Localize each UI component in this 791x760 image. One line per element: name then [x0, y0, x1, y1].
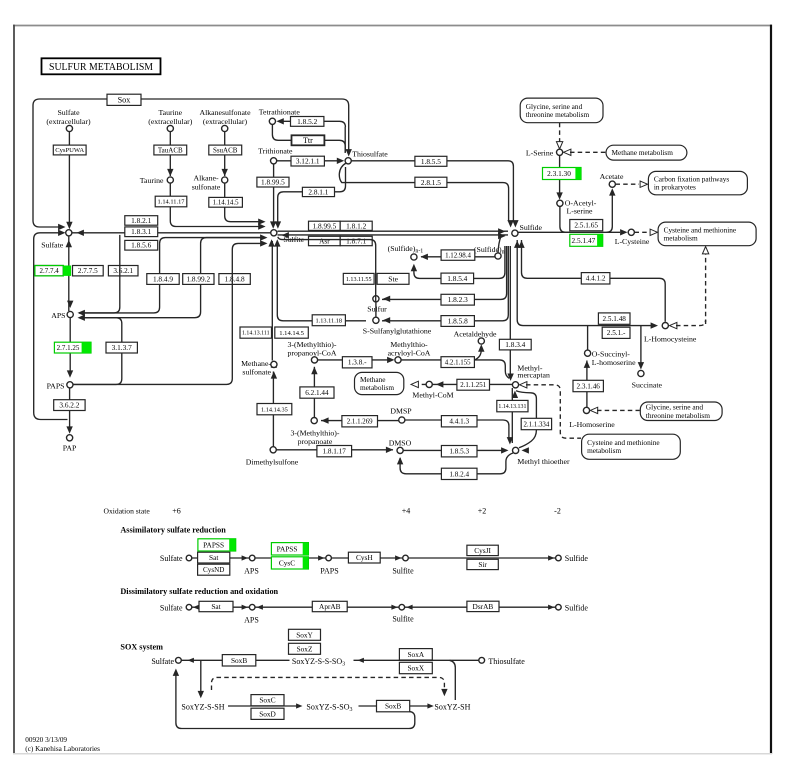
arrowhead into SoxYZ-SH	[427, 703, 433, 708]
arrowhead into sulfite (dissim)	[391, 605, 397, 610]
svg-text:3.6.2.2: 3.6.2.2	[59, 401, 79, 410]
node PAP	[67, 435, 73, 441]
node DMSP	[399, 417, 405, 423]
svg-text:1.14.14.5: 1.14.14.5	[279, 330, 304, 337]
svg-text:SoxYZ-SH: SoxYZ-SH	[434, 703, 470, 712]
enzyme box 2.8.1.1	[302, 187, 334, 196]
wire sulfide to L-cysteine (via 2.5.1.65 / 2.5.1.47)	[518, 231, 620, 233]
svg-text:Sulfate: Sulfate	[41, 241, 64, 250]
svg-text:1.8.1.2: 1.8.1.2	[346, 221, 366, 230]
svg-text:4.4.1.2: 4.4.1.2	[586, 275, 606, 283]
arrowhead into acetate	[609, 188, 615, 195]
svg-text:Dimethylsulfone: Dimethylsulfone	[246, 457, 299, 466]
svg-text:SoxY: SoxY	[296, 630, 313, 639]
svg-text:Sulfate: Sulfate	[151, 657, 174, 666]
enzyme box 2.8.1.5	[415, 177, 447, 187]
node Dimethylsulfone	[270, 447, 276, 453]
svg-text:Sulfur: Sulfur	[367, 304, 387, 313]
svg-text:(extracellular): (extracellular)	[203, 117, 248, 126]
svg-text:L-homoserine: L-homoserine	[592, 358, 636, 367]
wire 1.3.8.- propanoyl-CoA -> acryloyl-CoA	[318, 359, 392, 361]
wire succinate branch	[640, 326, 642, 366]
node Trithionate	[271, 158, 277, 164]
wire sulfate-ext to sulfate junction	[68, 132, 70, 223]
node sulfite dissimilatory	[399, 604, 405, 610]
wire 3.1.3.7 loop PAPS->APS	[73, 318, 122, 385]
arrowhead into sulfur from right (1.8.2.3)	[383, 296, 390, 302]
svg-text:threonine metabolism: threonine metabolism	[646, 411, 710, 420]
enzyme box Sox	[107, 94, 141, 105]
svg-text:1.14.13.111: 1.14.13.111	[242, 331, 270, 337]
arrowhead into APS lower from right	[78, 315, 85, 321]
svg-text:Dissimilatory sulfate reductio: Dissimilatory sulfate reduction and oxid…	[120, 587, 278, 596]
node Methyl-CoM	[426, 381, 432, 387]
map box Cysteine and methionine metabolism (lower)	[582, 434, 681, 459]
wire 1.8.2.4 methyl thioether->DMSO loop	[400, 453, 513, 474]
wire 3.12.1.1 line trithionate->thiosulfate	[277, 160, 342, 162]
node sulfite assimilatory	[403, 555, 409, 561]
wire L-serine to O-acetyl-L-serine (via 2.3.1.30)	[559, 155, 561, 196]
wire 1.8.5.2 right stub down to thiosulfate	[344, 127, 346, 153]
node Alkanesulfonate (extracellular)	[222, 125, 228, 131]
enzyme box 2.7.7.5	[73, 266, 104, 276]
arrowhead into APS (dissim)	[242, 605, 248, 610]
svg-text:1.8.5.2: 1.8.5.2	[297, 117, 317, 126]
arrowhead into sulfate from right	[77, 230, 84, 236]
wire trithionate down to sulfite (via 1.8.99.5)	[273, 164, 275, 223]
wire PAPS->1.8.4.8->sulfite	[73, 243, 261, 384]
open arrowhead up into cysteine metabolism box	[702, 247, 708, 254]
svg-text:(extracellular): (extracellular)	[148, 117, 193, 126]
enzyme box 1.13.11.55	[343, 273, 374, 284]
svg-text:L-Serine: L-Serine	[526, 149, 554, 158]
wire 1.14.13.131 methylmercaptan->methyl thioether	[511, 388, 513, 443]
map box Methane metabolism (right)	[606, 145, 687, 160]
enzyme box 1.8.2.1	[125, 216, 158, 226]
svg-text:SsuACB: SsuACB	[213, 146, 238, 154]
node APS dissimilatory	[249, 604, 255, 610]
svg-text:APS: APS	[244, 615, 259, 624]
wire thiosulfate stub down to SoxYZ-SH	[450, 660, 456, 700]
svg-text:SoxA: SoxA	[407, 650, 424, 659]
svg-text:CysJI: CysJI	[474, 546, 491, 555]
svg-text:1.8.99.5: 1.8.99.5	[261, 178, 285, 187]
open arrowhead into methane metabolism box 2	[411, 381, 418, 387]
svg-text:2.5.1.48: 2.5.1.48	[603, 315, 627, 323]
arrowhead into sulfite upper-left 1	[258, 223, 265, 229]
arrowheads into sulfite from below	[268, 239, 274, 246]
wire sulfate<->sulfite main line	[72, 232, 270, 234]
enzyme box 1.8.5.3	[441, 446, 477, 457]
wire taurine to sulfite (via 1.14.11.17)	[170, 183, 259, 227]
node thiosulfate SOX	[479, 657, 485, 663]
enzyme box SoxA	[399, 649, 432, 660]
enzyme box Ttr (bold)	[292, 135, 325, 145]
arrowhead into APS from top	[67, 301, 73, 308]
wire 2.1.1.251 methylmercaptan->methyl-CoM	[432, 383, 512, 385]
arrowhead up into sulfate (SOX loop)	[173, 669, 179, 676]
svg-text:1.8.3.1: 1.8.3.1	[131, 227, 151, 236]
enzyme box 1.14.14.35	[257, 404, 292, 415]
node Sulfite junction	[271, 230, 277, 236]
node sulfide dissimilatory	[556, 604, 562, 610]
svg-text:1.14.14.35: 1.14.14.35	[261, 406, 288, 413]
arrowhead into PAP	[66, 426, 72, 433]
svg-text:+4: +4	[402, 507, 411, 516]
svg-text:3.1.3.7: 3.1.3.7	[112, 343, 132, 352]
svg-text:Acetaldehyde: Acetaldehyde	[454, 329, 497, 338]
enzyme box SoxY	[289, 629, 321, 640]
map box Glycine serine threonine metabolism (lower)	[640, 402, 722, 421]
enzyme box Sat 2	[199, 601, 233, 611]
arrowhead into PAPS (assim)	[318, 555, 324, 560]
svg-text:Thiosulfate: Thiosulfate	[488, 657, 525, 666]
arrowhead into sulfite (assim)	[395, 555, 401, 560]
enzyme box SoxB 2	[377, 700, 410, 711]
enzyme box SoxZ	[289, 643, 321, 654]
enzyme box 2.5.1.65	[570, 220, 603, 231]
wire 2.5.1.48 sulfide->L-homocysteine	[517, 240, 651, 326]
svg-text:1.8.2.3: 1.8.2.3	[448, 295, 468, 304]
wire dashed methylmercaptan to cysteine metabolism box (lower)	[526, 385, 581, 438]
wire sulfite<->sulfide parallel lines	[278, 230, 509, 232]
svg-text:Ste: Ste	[388, 274, 398, 283]
node Methylthio-acryloyl-CoA	[395, 357, 401, 363]
svg-text:+2: +2	[478, 507, 487, 516]
arrowhead into thiosulfate from Sox line	[346, 149, 352, 156]
arrowhead into L-cysteine	[620, 229, 627, 235]
enzyme box TauACB	[154, 145, 187, 155]
wire sulfur-s-sulfanyl connection	[375, 302, 377, 318]
arrowhead into sulfate (dissim)	[193, 605, 199, 610]
wire 1.8.5.5 line thiosulfate->sulfide	[351, 161, 513, 222]
arrowhead into succinate	[638, 362, 644, 369]
arrowhead into sulfide from left 2	[498, 233, 505, 239]
svg-text:1.8.99.2: 1.8.99.2	[186, 275, 210, 284]
wire 1.8.5.2 line thiosulfate->tetrathionate	[283, 121, 345, 127]
svg-text:in prokaryotes: in prokaryotes	[654, 183, 696, 192]
enzyme box 1.8.2.4	[441, 468, 477, 479]
svg-text:mercaptan: mercaptan	[517, 371, 550, 380]
svg-text:Methyl thioether: Methyl thioether	[517, 457, 570, 466]
node DMSO	[397, 447, 403, 453]
svg-text:1.8.99.5: 1.8.99.5	[313, 221, 337, 230]
node Taurine (extracellular)	[167, 125, 173, 131]
page border top (gray)	[13, 25, 772, 27]
wire assimilatory row line	[192, 557, 556, 559]
enzyme box 1.8.5.5	[415, 156, 447, 166]
svg-text:1.14.14.5: 1.14.14.5	[213, 200, 239, 207]
wire sulfate->3.6.2.1->APS loop	[79, 235, 120, 313]
enzyme box 1.8.5.4	[441, 273, 474, 284]
svg-text:sulfonate: sulfonate	[192, 182, 221, 191]
wire sulfite down then right to S-sulfanylglutathione (1.13.11.18)	[277, 241, 366, 321]
svg-text:Sulfate: Sulfate	[57, 108, 80, 117]
wire 1.8.5.3 DMSO->methyl thioether	[403, 449, 505, 451]
wire 2.8.1.5 line thiosulfate->sulfide	[339, 163, 508, 222]
svg-text:DMSP: DMSP	[390, 406, 412, 415]
svg-text:CysPUWA: CysPUWA	[55, 147, 84, 154]
wire SOX main line	[181, 659, 478, 661]
svg-text:2.1.1.334: 2.1.1.334	[523, 421, 549, 428]
svg-text:1.8.5.8: 1.8.5.8	[448, 317, 468, 326]
enzyme box 3.6.2.1	[108, 266, 138, 276]
arrowhead into SoxYZ-S-S-SO3	[358, 658, 364, 663]
wire PAPS to PAP (via 3.6.2.2)	[69, 388, 71, 427]
svg-text:3.12.1.1: 3.12.1.1	[296, 157, 320, 166]
wire 2.8.1.1 line thiosulfate->sulfite	[278, 167, 346, 223]
wire dashed L-homocysteine right then up	[676, 320, 706, 326]
arrowheads into sulfate junction from left (compartment paths)	[58, 224, 65, 230]
node (Sulfide)n	[495, 253, 501, 259]
node Taurine	[167, 177, 173, 183]
svg-text:Tetrathionate: Tetrathionate	[259, 108, 301, 117]
svg-text:acryloyl-CoA: acryloyl-CoA	[388, 348, 431, 357]
arrowhead into APS from right (dissim)	[257, 605, 263, 610]
svg-text:1.8.5.5: 1.8.5.5	[421, 157, 441, 166]
wire dashed L-homocysteine up to cysteine metabolism box	[705, 254, 707, 325]
enzyme box 1.8.5.8	[441, 316, 474, 327]
svg-text:CysH: CysH	[356, 553, 373, 562]
enzyme box 6.2.1.44	[300, 387, 334, 398]
arrowhead into methylmercaptan	[507, 374, 513, 381]
node Thiosulfate	[345, 158, 351, 164]
svg-text:1.13.11.18: 1.13.11.18	[316, 317, 343, 324]
svg-text:Sulfite: Sulfite	[392, 615, 414, 624]
enzyme box 3.1.3.7	[106, 342, 137, 353]
svg-text:Thiosulfate: Thiosulfate	[352, 149, 388, 158]
arrowhead into sulfite from right (dissim)	[406, 605, 412, 610]
enzyme box SoxC	[251, 695, 284, 706]
arrowhead into sulfate from below (APS return)	[66, 240, 72, 247]
node sulfide assimilatory	[556, 555, 562, 561]
label SoxYZ-S-SO3	[305, 701, 358, 713]
svg-text:L-Cysteine: L-Cysteine	[615, 237, 650, 246]
wire acetate branch from cysteine line	[607, 195, 613, 233]
node Tetrathionate	[269, 118, 275, 124]
enzyme box 4.2.1.155	[441, 357, 474, 368]
node L-Homocysteine	[662, 323, 668, 329]
svg-text:1.8.4.9: 1.8.4.9	[153, 275, 173, 284]
svg-text:6.2.1.44: 6.2.1.44	[305, 389, 329, 397]
enzyme box 1.8.3.4	[499, 339, 531, 350]
svg-text:1.14.13.131: 1.14.13.131	[498, 404, 526, 410]
wire 1.12.98.4 (sulfide)n -> (sulfide)n-1	[421, 256, 495, 258]
svg-text:Sat: Sat	[209, 553, 218, 562]
arrowhead into sulfide from left 1	[498, 228, 505, 234]
svg-text:metabolism: metabolism	[664, 233, 698, 242]
arrowhead into tetrathionate	[276, 118, 283, 124]
svg-text:SOX system: SOX system	[120, 643, 163, 652]
arrowhead into sulfide (assim)	[548, 555, 554, 560]
wire L-homoserine up to O-succinyl (2.3.1.46)	[586, 361, 588, 408]
enzyme box 1.14.13.131	[497, 400, 528, 411]
node O-Succinyl-L-homoserine	[585, 350, 591, 356]
enzyme box CysPUWA	[53, 145, 86, 155]
enzyme box 1.3.8.-	[342, 357, 372, 368]
wire sulfite down to methanesulfonate	[271, 241, 273, 361]
svg-text:Oxidation state: Oxidation state	[104, 507, 151, 516]
open arrowhead L-homocysteine dashed	[670, 322, 677, 328]
green stripe of 2.7.7.4	[63, 266, 71, 276]
enzyme box 3.12.1.1	[291, 156, 324, 166]
svg-text:3.6.2.1: 3.6.2.1	[113, 267, 133, 275]
wire SoxCD line	[228, 705, 298, 707]
enzyme box 1.14.14.5 (second)	[275, 327, 309, 338]
node PAPS assimilatory	[326, 555, 332, 561]
enzyme box AprAB	[312, 601, 347, 611]
enzyme box 1.8.5.2	[291, 117, 324, 127]
arrowhead into propanoate	[321, 417, 328, 423]
svg-text:1.8.3.4: 1.8.3.4	[505, 340, 525, 349]
enzyme box 1.8.1.17	[317, 446, 352, 457]
wire alkanesulfonate-ext down	[224, 132, 226, 177]
wire dashed glycine box to L-serine	[559, 123, 561, 143]
svg-text:+6: +6	[172, 507, 181, 516]
arrowhead into APS from right 2	[78, 310, 85, 316]
arrowhead into sulfite lower-left 1	[260, 240, 267, 246]
enzyme box 2.7.7.4 (green border)	[35, 266, 63, 276]
svg-text:00920 3/13/09: 00920 3/13/09	[25, 736, 67, 744]
svg-text:1.8.5.6: 1.8.5.6	[131, 241, 151, 250]
arrowhead into alkanesulfonate	[222, 169, 228, 176]
svg-text:propanoyl-CoA: propanoyl-CoA	[288, 348, 337, 357]
enzyme box 1.8.7.1	[340, 236, 372, 245]
svg-text:-2: -2	[554, 507, 561, 516]
arrowhead into thiosulfate from left	[337, 158, 344, 164]
svg-text:SULFUR METABOLISM: SULFUR METABOLISM	[49, 62, 153, 73]
svg-text:1.3.8.-: 1.3.8.-	[348, 359, 367, 367]
enzyme box PAPSS (green) 1	[198, 539, 236, 551]
svg-text:Acetate: Acetate	[600, 172, 624, 181]
map box Glycine serine and threonine metabolism (top)	[520, 98, 603, 123]
svg-text:1.8.7.1: 1.8.7.1	[346, 237, 366, 246]
enzyme box 1.14.13.111	[240, 327, 272, 338]
svg-text:Assimilatory sulfate reduction: Assimilatory sulfate reduction	[120, 526, 226, 535]
enzyme box 1.8.4.8	[219, 274, 250, 285]
enzyme box 1.8.99.2	[183, 274, 214, 285]
enzyme box 1.13.11.18	[312, 315, 345, 326]
node Succinate	[638, 370, 644, 376]
enzyme box 2.5.1.48	[598, 313, 630, 324]
wire O-succinyl-homoserine up to 2.5.1.48 line	[587, 326, 589, 350]
enzyme box 2.3.1.46	[573, 380, 603, 391]
arrowhead into methyl thioether from right	[522, 447, 529, 453]
enzyme box Sir	[467, 559, 498, 569]
svg-text:Sulfide: Sulfide	[565, 603, 589, 612]
node S-Sulfanylglutathione	[373, 317, 379, 323]
svg-text:2.8.1.5: 2.8.1.5	[421, 178, 441, 187]
wire 2.1.1.334 methyl thioether->methylmercaptan loop	[516, 391, 536, 448]
wire sulfide down to methylmercaptan (1.8.3.4)	[509, 246, 511, 375]
arrowhead into methyl thioether from top	[507, 437, 513, 444]
enzyme box CysJI	[467, 545, 498, 555]
enzyme box 1.8.5.6	[125, 240, 158, 250]
arrowhead into S-sulfanylglutathione from right (1.8.5.8)	[383, 317, 390, 323]
node Sulfate junction	[66, 230, 72, 236]
enzyme box CysC (green)	[271, 557, 308, 569]
svg-text:1.8.1.17: 1.8.1.17	[323, 448, 347, 456]
svg-text:2.7.1.25: 2.7.1.25	[57, 344, 80, 352]
svg-text:SoxD: SoxD	[259, 709, 276, 718]
node Acetate	[609, 181, 615, 187]
svg-text:Sulfate: Sulfate	[160, 554, 183, 563]
svg-text:PAPSS: PAPSS	[277, 544, 298, 553]
node Sulfide junction	[512, 230, 518, 236]
enzyme box SoxB 1	[222, 655, 256, 666]
wire dashed L-homoserine to glycine box	[597, 409, 640, 411]
arrowhead into sulfite upper-left 2	[258, 219, 265, 225]
svg-text:2.1.1.251: 2.1.1.251	[460, 382, 486, 389]
arrowhead into methylthio-acryloyl-CoA	[387, 357, 394, 363]
arrowhead into sulfide from top 2	[512, 220, 518, 227]
svg-text:1.12.98.4: 1.12.98.4	[445, 252, 471, 259]
svg-text:Succinate: Succinate	[632, 380, 663, 389]
arrowhead into DMSO	[386, 447, 393, 453]
wire (sulfide)n up to sulfide junction	[498, 237, 501, 253]
enzyme box 2.1.1.269	[342, 416, 378, 427]
node APS assimilatory	[249, 555, 255, 561]
svg-text:metabolism: metabolism	[360, 383, 394, 392]
enzyme box 2.3.1.30 (green)	[543, 168, 582, 180]
enzyme box PAPSS (green) 2	[271, 543, 308, 555]
enzyme box CysH	[348, 552, 380, 563]
enzyme box 2.7.1.25 (green)	[54, 342, 91, 353]
svg-text:L-Homocysteine: L-Homocysteine	[644, 334, 697, 343]
enzyme box 1.8.1.2	[340, 221, 372, 230]
svg-text:SoxYZ-S-SO3: SoxYZ-S-SO3	[306, 703, 352, 714]
svg-text:4.2.1.155: 4.2.1.155	[445, 359, 471, 366]
svg-text:Sat: Sat	[211, 602, 220, 611]
arrowhead into sulfite from top 2	[275, 221, 281, 228]
arrowhead into O-succinyl from below	[584, 361, 590, 368]
wire dashed recycle path	[212, 677, 445, 690]
wire 1.8.99.2 line sulfite<->APS lower	[79, 238, 263, 318]
arrowhead into (sulfide)n-1	[421, 254, 428, 260]
svg-text:2.7.7.5: 2.7.7.5	[78, 267, 98, 275]
enzyme box 2.5.1.47 (green)	[570, 234, 603, 246]
svg-text:Taurine: Taurine	[140, 176, 164, 185]
wire Sox compartment path upper (to thiosulfate)	[33, 99, 349, 227]
svg-text:1.13.11.55: 1.13.11.55	[346, 277, 372, 283]
wire left compartment path lower (sulfate loop)	[34, 233, 68, 420]
svg-text:Trithionate: Trithionate	[258, 146, 293, 155]
page border left	[13, 25, 15, 754]
svg-text:1.8.5.4: 1.8.5.4	[447, 274, 467, 283]
svg-text:2.5.1.65: 2.5.1.65	[574, 221, 598, 230]
arrowhead into sulfate (SOX)	[188, 658, 194, 663]
arrowhead into sulfate junction from top	[66, 222, 72, 229]
wire 2.1.1.269 DMSP->propanoate	[321, 420, 399, 422]
svg-text:APS: APS	[51, 311, 65, 320]
wire dashed acetate to carbon fixation box	[616, 183, 640, 185]
arrowhead into methanesulfonate from below	[271, 371, 277, 378]
svg-text:DsrAB: DsrAB	[473, 602, 494, 611]
svg-text:CysND: CysND	[203, 566, 224, 574]
arrowhead into propanoyl-CoA from below	[311, 367, 317, 374]
svg-text:PAPS: PAPS	[320, 566, 338, 575]
enzyme box 2.5.1.-	[602, 327, 630, 338]
svg-text:2.3.1.30: 2.3.1.30	[547, 169, 571, 178]
svg-text:2.8.1.1: 2.8.1.1	[308, 187, 328, 196]
svg-text:threonine metabolism: threonine metabolism	[526, 110, 590, 119]
wire dashed L-serine to methane metabolism box	[570, 151, 606, 153]
svg-text:Sir: Sir	[478, 560, 487, 569]
wire acetaldehyde branch	[475, 350, 482, 360]
svg-text:Alkane-: Alkane-	[193, 174, 219, 183]
wire taurine-ext down to taurine	[169, 132, 171, 177]
svg-text:SoxC: SoxC	[259, 696, 275, 705]
